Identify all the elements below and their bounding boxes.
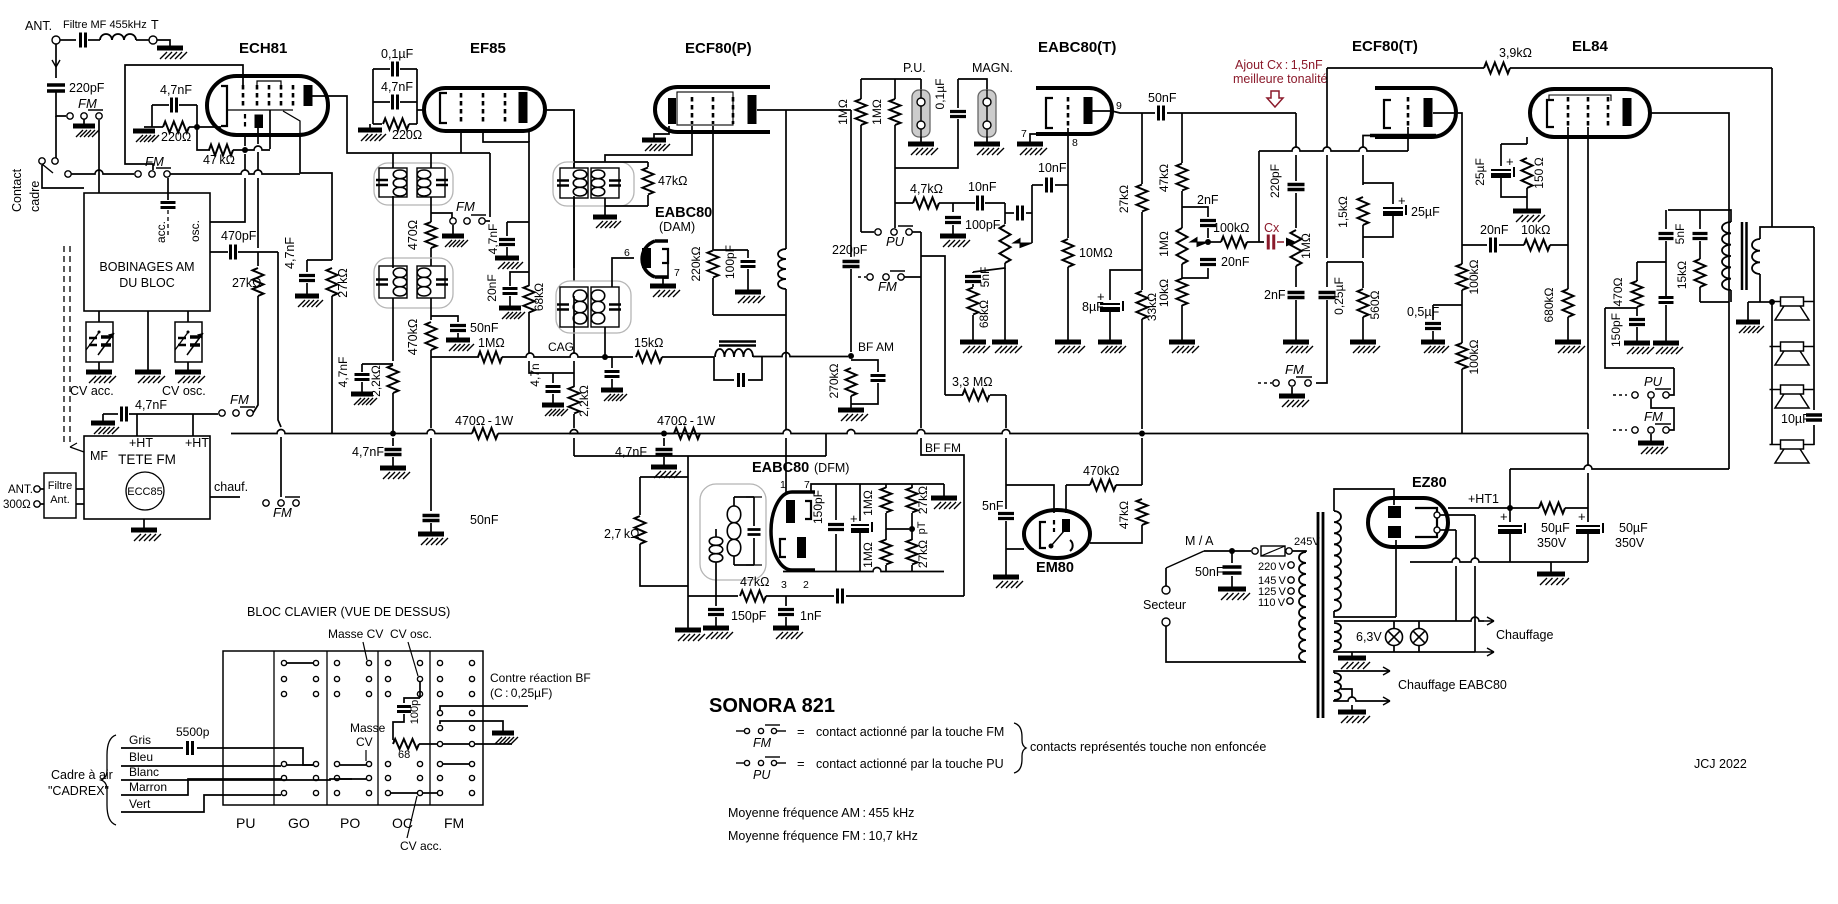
tube DFM cathode 2 [780, 539, 786, 557]
svg-text:ECF80(P): ECF80(P) [685, 40, 752, 57]
tube DAM anode bracket [662, 249, 668, 263]
ground FM feedback [1650, 434, 1652, 441]
svg-text:4,7nF: 4,7nF [352, 445, 384, 459]
svg-text:FM: FM [878, 279, 897, 294]
resistor 27kohm osc [257, 252, 259, 266]
capacitor 220pF triode grid [1295, 113, 1297, 147]
capacitor parallel 270k [851, 360, 878, 372]
network rails [836, 483, 944, 485]
ground [306, 283, 308, 294]
wire coil sec down to 150pF [715, 562, 717, 596]
transformer IF2b box [553, 162, 634, 206]
resistor 27kohm dfm lower [907, 540, 918, 565]
resistor 220ohm ECH81 cathode [163, 122, 189, 133]
wire box [372, 69, 374, 124]
svg-text:100kΩ: 100kΩ [1467, 259, 1481, 294]
transformer IF1 box [374, 163, 453, 205]
svg-text:3,3 MΩ: 3,3 MΩ [952, 375, 993, 389]
svg-text:10kΩ: 10kΩ [1157, 279, 1171, 307]
svg-text:+: + [1097, 289, 1105, 304]
transformer output primary [1722, 222, 1731, 290]
speaker 1 [1781, 297, 1804, 306]
svg-text:4,7nF: 4,7nF [336, 357, 350, 388]
svg-text:MAGN.: MAGN. [972, 61, 1013, 75]
wire right rail + ground [943, 484, 945, 496]
tube EABC80(T) envelope [1036, 88, 1112, 134]
capacitor 50nF mains [1229, 548, 1235, 554]
svg-text:2nF: 2nF [1264, 288, 1286, 302]
transformer ratio det box [700, 484, 766, 580]
svg-text:ECH81: ECH81 [239, 40, 287, 57]
wire to 50nF [1138, 112, 1155, 114]
wire EL84 cathode [1526, 137, 1528, 144]
capacitor 50nF AVC bypass [431, 316, 458, 322]
svg-text:4,7nF: 4,7nF [486, 224, 500, 255]
block Filtre Ant [44, 473, 76, 518]
svg-text:1MΩ: 1MΩ [478, 336, 505, 350]
svg-text:CV osc.: CV osc. [390, 627, 432, 641]
wire to bus crossing [1005, 395, 1007, 428]
wire BF line from IF3 to DFM box [574, 455, 826, 457]
wire to FM switch [129, 413, 218, 415]
wire EL84 screen down to HT [1587, 127, 1589, 429]
wire top rail PU [861, 78, 921, 80]
resistor 100kohm Cx [1208, 241, 1221, 243]
svg-text:EABC80: EABC80 [752, 460, 809, 476]
wire grid to IFT2 secondary [605, 126, 692, 162]
node junction 220ohm-4,7nF [189, 126, 197, 128]
tube ECF80T cathode bracket [1384, 100, 1391, 128]
node CAG dot [602, 354, 608, 360]
svg-text:68: 68 [398, 749, 410, 761]
tube EL84 envelope [1530, 89, 1650, 137]
contacts GO PO OC FM top rows [281, 660, 286, 665]
wire 5nF EM80 [1005, 485, 1007, 509]
svg-text:6: 6 [624, 247, 630, 259]
capacitor 4,7nF ECH81 [172, 98, 177, 113]
capacitor 0,1uF magn [957, 79, 959, 108]
svg-text:27kΩ: 27kΩ [336, 268, 350, 298]
ground [157, 46, 183, 51]
svg-text:470pF: 470pF [221, 229, 257, 243]
speaker 2 [1781, 342, 1804, 351]
svg-text:150pF: 150pF [731, 609, 767, 623]
wire [88, 39, 100, 41]
node pT [909, 526, 915, 532]
svg-text:M / A: M / A [1185, 534, 1214, 548]
svg-text:cadre: cadre [28, 181, 42, 212]
svg-text:10kΩ: 10kΩ [1521, 223, 1551, 237]
wire triode grid line [1259, 147, 1408, 151]
resistor 470ohm-1W right [674, 428, 700, 439]
ground CV acc [98, 362, 100, 370]
tube ECH81 triode anode lead [283, 111, 300, 135]
capacitor 5nF pot [972, 272, 974, 273]
transformer HT secondary [1334, 511, 1341, 611]
svg-text:300Ω: 300Ω [3, 499, 31, 511]
IF1 right tank [417, 168, 445, 197]
svg-text:BF FM: BF FM [925, 441, 961, 455]
tube DFM anode 2 [797, 537, 806, 558]
wire tap up [1031, 185, 1033, 243]
svg-text:PU: PU [886, 234, 905, 249]
capacitor 0,25uF [1326, 262, 1328, 287]
wire EF85 pin to 4,7nF screen [483, 131, 529, 222]
resistor 33kohm [1137, 291, 1148, 319]
ratio det cap [746, 497, 762, 565]
svg-text:680kΩ: 680kΩ [1542, 287, 1556, 322]
svg-text:1nF: 1nF [800, 609, 822, 623]
wire left tank down [392, 298, 394, 361]
resistor 3,3Mohm [963, 390, 990, 401]
contacts bottom rows [281, 761, 286, 766]
svg-text:CV acc.: CV acc. [400, 839, 442, 853]
svg-text:CV osc.: CV osc. [162, 384, 206, 398]
svg-text:acc.: acc. [154, 221, 168, 243]
svg-text:+: + [1506, 154, 1514, 169]
svg-text:TETE FM: TETE FM [118, 452, 176, 467]
svg-text:2,2kΩ: 2,2kΩ [369, 365, 383, 397]
svg-text:5nF: 5nF [982, 499, 1004, 513]
svg-text:4,7nF: 4,7nF [135, 398, 167, 412]
svg-text:Contact: Contact [10, 168, 24, 212]
tube ECH81 grid connect line [257, 81, 281, 85]
node BF AM [848, 353, 854, 359]
svg-text:100pF: 100pF [723, 245, 737, 279]
svg-text:CAG: CAG [548, 340, 574, 354]
resistor 27kohm plate [1141, 113, 1143, 184]
ground 6,3V [1351, 652, 1353, 656]
inductor RF choke [785, 110, 787, 249]
wire PU middle to FM right [1651, 399, 1674, 427]
wire FM line left segment [71, 170, 134, 174]
capacitor 5nF a [1665, 210, 1667, 229]
wire IF2b left tank down [573, 198, 575, 281]
svg-text:47kΩ: 47kΩ [1117, 501, 1131, 529]
svg-text:4,7nF: 4,7nF [615, 445, 647, 459]
tube EL84 grids [1567, 97, 1570, 127]
wire mains bottom [1166, 626, 1306, 662]
ground pot bottom [1004, 268, 1006, 340]
transformer core [1318, 512, 1323, 718]
wire detector to BF AM node [753, 353, 848, 357]
svg-text:100kΩ: 100kΩ [1467, 339, 1481, 374]
wire box right side [196, 105, 198, 127]
tube EF85 anode [519, 92, 528, 123]
resistor 27kohm dfm upper [911, 484, 913, 488]
svg-text:7: 7 [1021, 128, 1027, 140]
wire 470 top to FM switch left [431, 213, 452, 218]
capacitor 50uF 2 [1587, 505, 1589, 522]
dashed cadre lines [63, 246, 65, 446]
svg-text:ECC85: ECC85 [127, 486, 162, 498]
tube DFM anode 1 [786, 500, 795, 523]
wire right tank down to 470k [430, 298, 432, 320]
wire PU right contact [912, 231, 921, 233]
resistor 470ohm [430, 197, 432, 222]
svg-text:(C : 0,25µF): (C : 0,25µF) [490, 686, 552, 700]
brace legend [1014, 723, 1026, 773]
wire 47k em80 [1141, 438, 1143, 485]
wire main HT bus [231, 430, 472, 434]
wire grid [1006, 485, 1054, 513]
svg-text:contacts représentés touche no: contacts représentés touche non enfoncée [1030, 740, 1266, 754]
wire EL84 grid1 down [1567, 127, 1569, 245]
svg-text:4,7nF: 4,7nF [381, 80, 413, 94]
svg-text:220pF: 220pF [69, 81, 105, 95]
capacitor 150pF dfm [835, 484, 837, 520]
svg-text:=: = [797, 724, 805, 739]
svg-text:50µF: 50µF [1541, 521, 1570, 535]
winding 6,3V [1334, 623, 1341, 650]
potentiometer 1Mohm volume [1004, 203, 1006, 224]
capacitor 220pF AM coupling [850, 110, 852, 257]
node ANT antenna input [52, 36, 60, 44]
wire 470pF node [210, 251, 228, 253]
capacitor series dfm out [786, 595, 834, 597]
wire center down [687, 456, 689, 477]
ratio det coil primary [727, 506, 741, 556]
svg-text:FM: FM [273, 505, 292, 520]
tube DFM cathode 1 [805, 501, 811, 519]
svg-text:0,5µF: 0,5µF [1407, 305, 1440, 319]
tube EZ80 anode squares [1388, 506, 1401, 518]
tube ECH81 cathode bracket [221, 86, 227, 126]
svg-text:Chauffage: Chauffage [1496, 628, 1554, 642]
svg-text:15kΩ: 15kΩ [634, 336, 664, 350]
resistor 47kohm ECH81 grid [209, 145, 233, 156]
wire continues to FM head switch crossing bus [280, 437, 282, 497]
wire anode line [757, 109, 851, 111]
capacitor 50uF 1 [1509, 508, 1511, 522]
svg-text:220Ω: 220Ω [392, 128, 422, 142]
svg-text:100pF: 100pF [965, 218, 1001, 232]
ground 50nF [418, 532, 444, 537]
tube EABC80 DFM diodes [771, 492, 815, 570]
svg-text:470kΩ: 470kΩ [1083, 464, 1119, 478]
transformer IF2 box [374, 258, 453, 308]
wire down to contact cadre [55, 116, 57, 158]
svg-text:(DFM): (DFM) [814, 461, 849, 475]
IF1 left tank [379, 168, 407, 197]
legend FM contact symbol [736, 730, 744, 732]
svg-text:JCJ 2022: JCJ 2022 [1694, 757, 1747, 771]
svg-text:10nF: 10nF [968, 180, 997, 194]
svg-text:68kΩ: 68kΩ [977, 300, 991, 328]
svg-text:CV acc.: CV acc. [70, 384, 114, 398]
svg-text:350V: 350V [1615, 536, 1645, 550]
svg-text:150 Ω: 150 Ω [1532, 157, 1546, 188]
wire to B+ down [1728, 210, 1730, 302]
wire box left side [151, 105, 153, 127]
svg-text:350V: 350V [1537, 536, 1567, 550]
tube EABC80T anode [1084, 97, 1093, 124]
svg-text:FM: FM [78, 96, 97, 111]
resistor 47kohm dfm out [740, 591, 766, 602]
wire grid1 box ECH81 [125, 65, 243, 170]
svg-text:7: 7 [804, 479, 810, 491]
tube ECF80(T) envelope [1375, 88, 1456, 137]
capacitor 2nF bottom [1288, 293, 1305, 298]
wire PU right to 3,3M line [921, 256, 945, 395]
capacitor 10nF 2 [1032, 184, 1043, 186]
svg-text:pT: pT [916, 521, 928, 534]
svg-text:50nF: 50nF [1148, 91, 1177, 105]
wire FM line with hops to ECH81 grid node [170, 170, 300, 174]
wire bottom rail [1410, 558, 1588, 562]
resistor 15kohm [636, 352, 662, 363]
wire CAG junction down to bus [430, 357, 432, 428]
svg-text:chauf.: chauf. [214, 480, 248, 494]
tube ECF80P inner box [677, 92, 733, 125]
svg-text:EL84: EL84 [1572, 38, 1609, 55]
wire to 47k [197, 127, 210, 150]
wire EF85 anode to IFT2 [545, 110, 574, 168]
svg-text:1: 1 [780, 479, 786, 491]
svg-text:470kΩ: 470kΩ [406, 319, 420, 355]
wire PU contact up [1669, 368, 1674, 395]
speaker 4 [1781, 440, 1804, 449]
svg-text:150pF: 150pF [811, 490, 825, 524]
tube EL84 anode [1623, 98, 1632, 126]
wire down [528, 232, 530, 286]
svg-text:150pF: 150pF [1609, 313, 1623, 347]
wire FM antenna switch to bobinages [98, 120, 100, 193]
wire output line 47k [688, 595, 716, 597]
wire EL84 anode out [1650, 113, 1729, 210]
wire FM col to contre reaction [440, 706, 528, 710]
wire pin down from tube [244, 135, 246, 146]
wire screen supply top [1327, 67, 1484, 69]
svg-text:contact actionné par la touche: contact actionné par la touche FM [816, 725, 1004, 739]
resistor 10kohm [1177, 279, 1188, 306]
capacitor 0,1uF [393, 62, 398, 77]
wire contact cadre to bobinages box [42, 165, 84, 188]
svg-text:1,5kΩ: 1,5kΩ [1336, 196, 1350, 228]
ground TETE FM [143, 519, 145, 528]
wire antenna to filter [60, 39, 76, 41]
svg-text:BLOC CLAVIER (VUE DE DESSUS): BLOC CLAVIER (VUE DE DESSUS) [247, 605, 450, 619]
resistor 1Mohm PU 2 [894, 79, 896, 99]
svg-text:100p: 100p [409, 700, 421, 724]
tube EM80 deflector [1051, 531, 1064, 546]
svg-text:EM80: EM80 [1036, 560, 1074, 576]
svg-text:Chauffage EABC80: Chauffage EABC80 [1398, 678, 1507, 692]
resistor 1Mohm deemphasis [1295, 193, 1297, 228]
svg-text:Gris: Gris [129, 733, 151, 747]
svg-text:Moyenne fréquence FM : 10,7 k: Moyenne fréquence FM : 10,7 kHz [728, 829, 918, 843]
svg-text:10nF: 10nF [1038, 161, 1067, 175]
ground speaker [1760, 301, 1772, 303]
tube ECF80P anode [748, 95, 757, 124]
wire antenna down with arrow [55, 44, 57, 78]
resistor 560ohm [1362, 262, 1364, 288]
wire anode out [1433, 113, 1462, 245]
svg-text:=: = [797, 756, 805, 771]
wire ECH81 anode to IF line [312, 96, 393, 153]
svg-text:EABC80(T): EABC80(T) [1038, 39, 1116, 56]
svg-text:2: 2 [803, 579, 809, 591]
capacitor 100p keyboard [419, 682, 421, 698]
capacitor 4,7nF FM head [103, 413, 118, 415]
svg-text:20nF: 20nF [485, 274, 499, 301]
svg-text:Secteur: Secteur [1143, 598, 1186, 612]
wire cathode to tube [197, 126, 221, 128]
capacitor 4,7n [552, 373, 554, 383]
ground middle [135, 370, 161, 375]
contacts FM middle rows [437, 710, 442, 715]
svg-text:47 kΩ: 47 kΩ [203, 153, 235, 167]
wire 470pF right down to FM switch line [278, 252, 281, 427]
svg-text:470Ω - 1W: 470Ω - 1W [455, 414, 513, 428]
IF3 right tank [591, 287, 619, 327]
capacitor 20nF cathode [510, 272, 529, 286]
svg-text:+HT: +HT [129, 436, 153, 450]
resistor 1Mohm dfm lower [881, 540, 892, 565]
wire EF85 grid pin [460, 131, 462, 153]
capacitor 4,7nF triode [306, 260, 308, 272]
lamp 2 [1411, 629, 1428, 646]
capacitor series to triode [1005, 212, 1014, 214]
svg-text:5500p: 5500p [176, 725, 210, 739]
IF2 left tank [379, 266, 407, 298]
svg-text:0,1µF: 0,1µF [933, 79, 947, 110]
brace cadre [101, 735, 116, 825]
svg-text:220pF: 220pF [1268, 164, 1282, 198]
capacitor 150pF feedback [1636, 307, 1638, 316]
wire GO top link [287, 662, 313, 664]
resistor 68kohm pot [968, 288, 979, 315]
tube EM80 [1024, 510, 1090, 558]
wire node [307, 259, 332, 261]
ground EL84 cathode [1513, 209, 1541, 214]
resistor filter [1539, 503, 1565, 514]
IF2b right tank [591, 168, 619, 198]
capacitor 50nF coupling [1159, 106, 1164, 121]
wire EZ80 cathode down [1395, 540, 1397, 617]
resistor 220kohm [708, 251, 719, 278]
svg-text:+HT1: +HT1 [1468, 492, 1499, 506]
capacitor 50nF AVC [423, 516, 440, 521]
svg-text:1MΩ: 1MΩ [1157, 231, 1171, 257]
tube EF85 grids dashed [460, 93, 463, 122]
box 2,7k [640, 476, 688, 478]
svg-text:Filtre MF 455kHz: Filtre MF 455kHz [63, 19, 147, 31]
wire pin7 to top rail [811, 484, 836, 492]
wire secondary to speakers [1760, 227, 1772, 239]
ground FM IF switch [452, 225, 454, 234]
svg-text:27kΩ: 27kΩ [916, 486, 930, 514]
wire BF FM vertical [920, 232, 922, 428]
wire target [1065, 485, 1067, 513]
svg-text:+: + [1398, 193, 1406, 208]
svg-text:1MΩ: 1MΩ [861, 542, 875, 568]
links inside keyboard [287, 764, 313, 766]
wire EM80 cathode left [1006, 548, 1024, 550]
tube ECF80T grid dashed [1407, 97, 1410, 127]
wire IF line [393, 152, 490, 154]
tube EABC80T cathode bracket [1046, 98, 1053, 128]
svg-text:560Ω: 560Ω [1368, 290, 1382, 319]
tube ECH81 anode [304, 85, 313, 106]
svg-text:P.U.: P.U. [903, 61, 926, 75]
svg-text:20nF: 20nF [1480, 223, 1509, 237]
svg-text:contact actionné par la touche: contact actionné par la touche PU [816, 757, 1004, 771]
inductor filtre MF coil [100, 34, 136, 40]
svg-text:2nF: 2nF [1197, 193, 1219, 207]
arrow MF into box [70, 443, 84, 452]
tube ECC85 circle [126, 472, 164, 510]
